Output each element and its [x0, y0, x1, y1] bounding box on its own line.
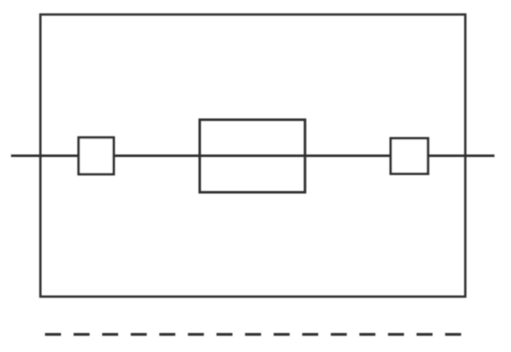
terminal block outline [40, 15, 465, 297]
clamp contact (right square) [391, 138, 428, 174]
mounting rail (dashed line) [45, 333, 461, 336]
clamp contact (left square) [79, 138, 114, 175]
wire (through conductor, left lead to right lead) [11, 155, 495, 158]
fuse F1 (rectangle with wire through it) [200, 120, 305, 193]
